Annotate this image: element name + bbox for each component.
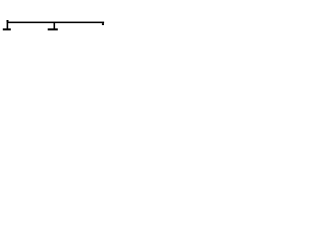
- wire stub (right end, downward): [102, 23, 104, 25]
- ground GND2: [48, 23, 58, 31]
- wire stub (left end, upward): [7, 20, 9, 22]
- wire: [8, 22, 104, 24]
- ground GND1: [3, 22, 11, 31]
